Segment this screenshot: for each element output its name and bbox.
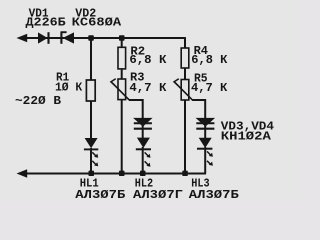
svg-text:1Ø К: 1Ø К <box>55 80 83 94</box>
wire VD3-HL2 <box>142 125 144 138</box>
svg-text:6,8 К: 6,8 К <box>129 53 167 67</box>
resistor R1 <box>86 80 95 101</box>
svg-text:Д226Б: Д226Б <box>26 15 66 29</box>
wire C1 lower <box>90 148 92 173</box>
svg-text:АЛ3Ø7Б: АЛ3Ø7Б <box>75 188 125 202</box>
junction bottom rail / HL2 <box>140 171 146 176</box>
junction bottom rail / HL1 <box>89 171 95 176</box>
junction bottom rail / R5 <box>182 171 188 176</box>
svg-text:4,7 К: 4,7 К <box>191 81 228 95</box>
svg-text:4,7 К: 4,7 К <box>129 81 167 95</box>
wire HL2 lower <box>142 147 144 173</box>
wire R2-R3 <box>121 69 123 79</box>
wire VD4-HL3 <box>204 125 206 138</box>
resistor R2 <box>118 47 126 69</box>
resistor R4 <box>181 48 189 68</box>
svg-text:АЛ3Ø7Б: АЛ3Ø7Б <box>189 188 239 202</box>
wire HL3 lower <box>204 147 206 173</box>
wire C3 lower <box>184 100 186 173</box>
svg-text:АЛ3Ø7Г: АЛ3Ø7Г <box>133 188 183 202</box>
junction bottom rail / R3 <box>119 171 125 176</box>
arrow top-left AC terminal <box>17 34 28 42</box>
wire C1 upper <box>90 38 92 81</box>
wire R3 wiper to VD3 column <box>129 100 143 119</box>
wire top rail <box>26 37 185 39</box>
wire bottom rail <box>25 173 206 175</box>
potentiometer R5 <box>174 79 193 100</box>
dinistor VD3 <box>134 118 152 129</box>
potentiometer R3 <box>111 79 129 100</box>
junction top rail / R1 column <box>88 35 94 40</box>
wire C2 upper <box>121 38 123 48</box>
wire C1 middle <box>90 101 92 139</box>
wire C2 lower <box>121 100 123 173</box>
dinistor VD4 <box>196 118 214 129</box>
wire C3 upper <box>184 37 186 48</box>
junction top rail / R2 column <box>119 35 125 40</box>
LED HL1 <box>84 138 98 166</box>
svg-text:КС68ØА: КС68ØА <box>72 15 122 29</box>
svg-text:КН1Ø2А: КН1Ø2А <box>221 129 272 143</box>
LED HL3 <box>197 138 213 166</box>
wire R5 wiper to VD4 column <box>192 100 205 119</box>
wire R4-R5 <box>184 68 186 80</box>
LED HL2 <box>136 138 151 167</box>
arrow bottom-left AC terminal <box>17 169 28 177</box>
zener diode VD2 <box>61 31 74 43</box>
diode VD1 <box>38 32 49 44</box>
svg-text:~22Ø В: ~22Ø В <box>15 94 61 108</box>
svg-text:6,8 К: 6,8 К <box>191 53 228 67</box>
